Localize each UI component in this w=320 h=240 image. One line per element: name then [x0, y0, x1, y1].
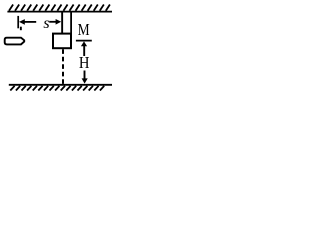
dimension s left arrow	[19, 19, 25, 25]
floor line	[9, 84, 112, 86]
dashed drop line	[62, 49, 64, 84]
svg-text:s: s	[43, 15, 49, 32]
left string	[61, 12, 63, 33]
block M	[53, 34, 71, 49]
floor hatching	[10, 86, 104, 91]
ceiling line	[7, 11, 112, 13]
tick foot mark	[20, 27, 22, 31]
dimension H down arrow	[84, 71, 86, 79]
right string	[70, 12, 72, 33]
dimension s left tick	[17, 16, 19, 28]
dimension H top tick	[76, 40, 92, 42]
bullet projectile	[5, 38, 25, 45]
dimension H up arrow	[81, 41, 87, 46]
dimension s right arrow	[49, 21, 56, 23]
ceiling hatching	[9, 5, 110, 11]
svg-text:M: M	[78, 20, 90, 39]
svg-text:H: H	[79, 53, 90, 72]
